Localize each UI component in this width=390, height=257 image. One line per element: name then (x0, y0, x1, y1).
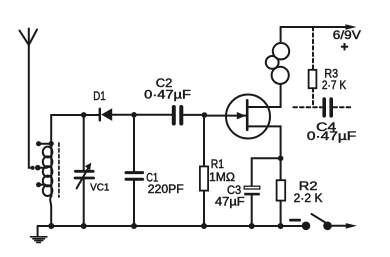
transistor Q1 channel bar (246, 100, 249, 130)
battery minus marker (290, 219, 299, 222)
svg-text:D1: D1 (93, 89, 106, 103)
node C1 bottom junction (131, 223, 137, 229)
resistor R3 body (309, 70, 317, 88)
node VC1 top junction (81, 112, 87, 118)
svg-text:C2: C2 (156, 76, 173, 90)
wire dashed R3 top lead (312, 27, 314, 70)
wire dashed R3 bottom lead (312, 88, 314, 107)
wire dashed C4 right (333, 106, 353, 108)
svg-text:2·7 K: 2·7 K (322, 80, 347, 92)
node C1 top junction (131, 112, 137, 118)
wire drain lead (247, 84, 280, 108)
transistor Q1 envelope circle (226, 95, 270, 139)
wire gate lead (204, 115, 245, 117)
node R2 bottom junction (278, 223, 284, 229)
svg-text:0·47µF: 0·47µF (307, 131, 356, 143)
wire C1 top lead (133, 115, 135, 171)
wire coil bottom to rail (50, 196, 51, 226)
svg-text:R1: R1 (211, 157, 224, 171)
node antenna tap clip dot (30, 166, 34, 170)
capacitor VC1 arrow (77, 163, 92, 189)
node source junction (278, 156, 284, 162)
switch S1 (302, 214, 357, 230)
capacitor C2 plates (174, 107, 182, 124)
ground (31, 226, 47, 242)
svg-text:R3: R3 (324, 67, 338, 81)
wire C2 to gate node (183, 114, 204, 116)
wire VC1 bottom lead (83, 179, 85, 226)
wire source to C3 (252, 158, 281, 186)
wire bottom rail (38, 225, 306, 227)
wire D1 to C2 (112, 114, 172, 116)
wire source lead (247, 126, 280, 226)
wire earphone top lead (280, 27, 282, 44)
wire VC1 top lead (83, 115, 85, 170)
antenna (20, 29, 38, 46)
wire coil top up and tank top rail (51, 115, 99, 144)
capacitor C4 plates (324, 99, 331, 116)
coil bottom tap (36, 182, 46, 187)
node R1 gate junction (202, 112, 208, 118)
label supply plus (341, 43, 348, 50)
diode D1 triangle (101, 108, 112, 121)
node VC1 bottom junction (81, 223, 87, 229)
capacitor C1 plates (126, 173, 143, 180)
svg-text:47µF: 47µF (215, 197, 245, 209)
wire dashed C4 left (293, 106, 321, 108)
node coil top junction (49, 141, 54, 146)
coil top tap (36, 141, 50, 146)
svg-text:2·2 K: 2·2 K (294, 193, 323, 205)
node coil bottom junction (48, 223, 54, 229)
capacitor C3 plates (244, 186, 260, 195)
transistor Q1 gate arrow (237, 112, 246, 119)
svg-text:C3: C3 (227, 183, 241, 197)
svg-text:C1: C1 (146, 171, 158, 185)
wire C3 bottom lead (251, 195, 253, 226)
svg-text:6/9V: 6/9V (333, 28, 361, 42)
top rail arrowhead (345, 24, 356, 30)
node C3 bottom junction (249, 223, 255, 229)
wire C1 bottom lead (133, 181, 135, 226)
resistor R2 body (277, 180, 286, 200)
resistor R1 body (200, 166, 208, 190)
svg-text:VC1: VC1 (90, 182, 109, 194)
wire R1 leads (203, 115, 205, 226)
wire antenna stem down to coil tap (29, 45, 32, 168)
coil core dashed line (58, 143, 60, 197)
diode D1 cathode bar (99, 109, 101, 121)
coil middle tap (35, 165, 47, 171)
capacitor VC1 plates (75, 171, 94, 178)
svg-text:220PF: 220PF (148, 184, 184, 196)
wire top supply rail (281, 26, 349, 28)
svg-text:R2: R2 (299, 179, 318, 193)
node R1 bottom junction (201, 223, 207, 229)
earphone bottom circle (272, 67, 289, 84)
svg-text:0·47µF: 0·47µF (144, 89, 191, 101)
earphone small loop (266, 56, 279, 69)
earphone top circle (273, 43, 289, 59)
inductor L1 coil (43, 144, 53, 197)
